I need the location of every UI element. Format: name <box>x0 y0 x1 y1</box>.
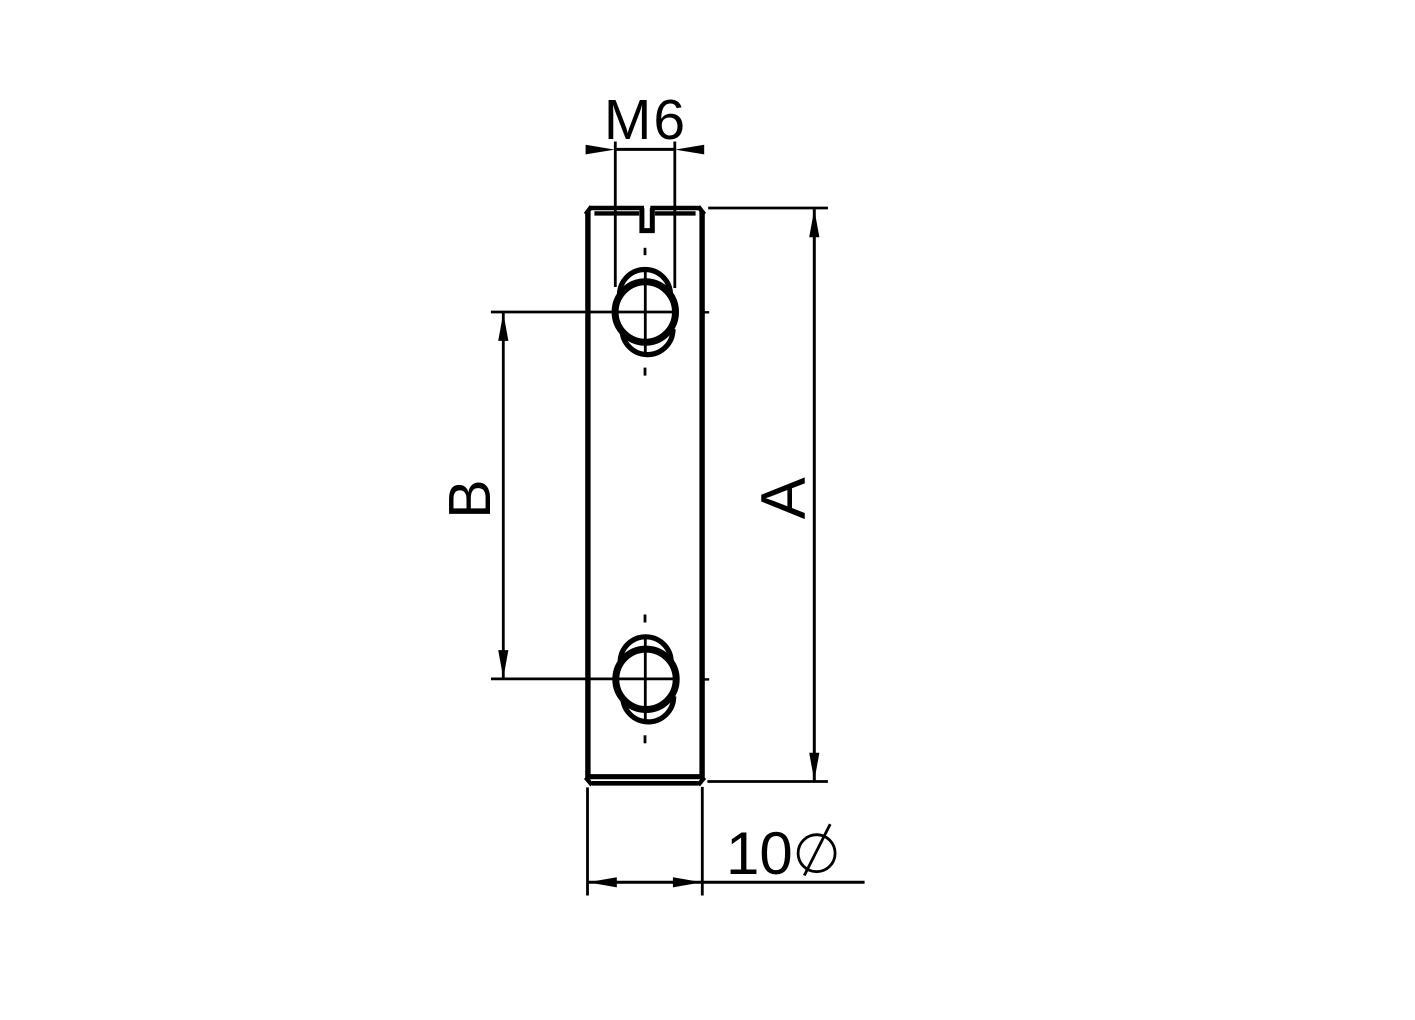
rod top chamfer line (right of slot) <box>655 211 696 215</box>
rod bottom-left chamfer corner <box>586 778 592 786</box>
rod top end-face line (left of slot) <box>591 206 644 211</box>
bottom hole M6: tap-drill circle <box>616 649 676 709</box>
A dimension extension line top <box>708 207 828 210</box>
rod body left edge <box>585 211 590 778</box>
svg-text:B: B <box>437 479 503 518</box>
B arrow up <box>498 313 508 341</box>
M6 arrow left (outside, pointing right at extension line) <box>586 145 615 155</box>
top hole centerline dash above <box>644 248 647 255</box>
top hole centerline tick right of rod edge <box>703 311 709 313</box>
bottom hole vertical centerline <box>644 637 647 722</box>
M6 extension line left <box>614 142 617 288</box>
A dimension line <box>813 210 816 781</box>
diameter symbol slash <box>804 824 830 875</box>
A dimension extension line bottom <box>707 780 828 783</box>
A arrow down <box>809 753 819 781</box>
rod top end-face line (right of slot) <box>650 206 698 211</box>
M6 arrow right (outside, pointing left at extension line) <box>675 145 704 155</box>
bottom hole thread crescent arc (upper, offset circle) <box>620 637 671 663</box>
rod top-right chamfer corner <box>698 207 704 215</box>
diameter arrow left (pointing left) <box>588 877 617 887</box>
bottom hole centerline dash below <box>644 735 647 743</box>
rod bottom end-face line <box>592 781 698 786</box>
rod top chamfer line (left of slot) <box>594 211 639 215</box>
rod body right edge <box>699 211 704 778</box>
bottom hole centerline dash above <box>644 615 647 623</box>
B dimension extension line top (hole centerline) <box>491 311 672 314</box>
A arrow up <box>809 209 819 237</box>
top hole vertical centerline <box>644 269 647 355</box>
rod top-left chamfer corner <box>586 207 592 215</box>
diameter dimension extension line left <box>586 787 589 895</box>
M6 extension line right <box>673 142 676 289</box>
rod bottom-right chamfer corner <box>698 778 704 786</box>
screwdriver slot at top <box>642 208 652 230</box>
diameter arrow right (pointing right) <box>673 877 702 887</box>
bottom hole thread crescent arc (lower, offset circle) <box>623 696 674 722</box>
top hole thread crescent arc (lower, offset circle) <box>622 329 673 355</box>
B dimension extension line bottom (hole centerline) <box>491 678 673 681</box>
svg-text:A: A <box>749 477 819 519</box>
svg-text:10: 10 <box>726 820 793 887</box>
top hole thread crescent arc (upper, offset circle) <box>620 270 671 295</box>
bottom hole centerline tick right of rod edge <box>703 678 709 680</box>
diameter dimension line with leader to the right <box>587 881 865 884</box>
diameter symbol circle <box>798 835 835 872</box>
top hole M6: tap-drill circle <box>615 282 675 342</box>
top hole centerline dash below <box>644 368 647 376</box>
rod bottom chamfer line <box>586 774 705 779</box>
B arrow down <box>498 650 508 678</box>
diameter dimension extension line right <box>701 787 704 896</box>
M6 dimension line <box>615 148 675 151</box>
B dimension line <box>502 313 505 678</box>
